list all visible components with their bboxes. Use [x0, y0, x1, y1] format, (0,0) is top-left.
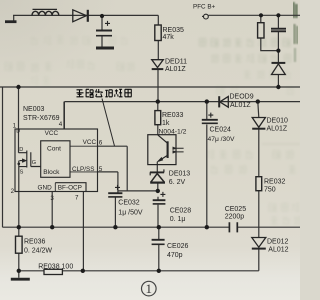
svg-text:750: 750	[264, 187, 276, 194]
svg-text:VCC: VCC	[45, 130, 59, 137]
svg-text:AL012: AL012	[268, 246, 288, 253]
svg-text:DE013: DE013	[169, 170, 191, 177]
svg-text:6. 2V: 6. 2V	[169, 179, 186, 186]
svg-text:VCC: VCC	[83, 139, 97, 146]
svg-text:1μ /50V: 1μ /50V	[118, 209, 143, 216]
svg-text:RE036: RE036	[24, 239, 46, 246]
svg-text:DE010: DE010	[267, 117, 289, 124]
svg-text:RE038 100: RE038 100	[38, 264, 73, 271]
svg-text:STR-X6769: STR-X6769	[23, 115, 60, 122]
svg-text:GND: GND	[38, 185, 53, 192]
svg-text:AL01Z: AL01Z	[230, 102, 251, 109]
svg-text:47k: 47k	[163, 34, 175, 41]
svg-text:DE012: DE012	[267, 238, 289, 245]
svg-text:AL01Z: AL01Z	[165, 66, 186, 73]
svg-text:5: 5	[99, 166, 103, 173]
svg-text:4: 4	[59, 121, 63, 128]
svg-text:6: 6	[99, 139, 103, 146]
svg-text:47μ /30V: 47μ /30V	[208, 136, 235, 143]
svg-text:BF-OCP: BF-OCP	[58, 185, 82, 192]
svg-text:NE003: NE003	[23, 106, 45, 113]
svg-text:Cont: Cont	[47, 146, 61, 153]
svg-text:CLP/SS: CLP/SS	[72, 166, 94, 173]
svg-text:DED11: DED11	[165, 59, 187, 66]
svg-text:2200p: 2200p	[225, 214, 245, 221]
svg-text:PFC B+: PFC B+	[193, 3, 216, 10]
svg-text:1: 1	[146, 281, 153, 296]
svg-text:CE026: CE026	[167, 243, 189, 250]
svg-text:CE024: CE024	[210, 127, 232, 134]
svg-text:DEOD9: DEOD9	[230, 93, 254, 100]
svg-text:7: 7	[75, 195, 79, 202]
svg-text:AL01Z: AL01Z	[267, 126, 288, 133]
svg-text:470p: 470p	[167, 252, 183, 259]
svg-text:Block: Block	[43, 169, 60, 176]
svg-text:3: 3	[50, 195, 54, 202]
svg-text:RE035: RE035	[163, 27, 185, 34]
svg-text:1k: 1k	[162, 120, 170, 127]
svg-text:CE025: CE025	[225, 206, 247, 213]
svg-text:D: D	[16, 129, 20, 135]
svg-text:0. 1μ: 0. 1μ	[170, 216, 186, 223]
svg-text:N004-1/2: N004-1/2	[159, 128, 187, 135]
svg-text:CE028: CE028	[170, 207, 192, 214]
svg-text:D: D	[19, 147, 23, 153]
svg-text:RE032: RE032	[264, 179, 286, 186]
svg-text:2: 2	[11, 188, 15, 195]
svg-text:RE033: RE033	[162, 112, 184, 119]
svg-text:CE032: CE032	[118, 200, 140, 207]
svg-text:S: S	[20, 169, 24, 175]
svg-text:0. 24/2W: 0. 24/2W	[24, 247, 52, 254]
svg-text:G: G	[32, 160, 36, 166]
